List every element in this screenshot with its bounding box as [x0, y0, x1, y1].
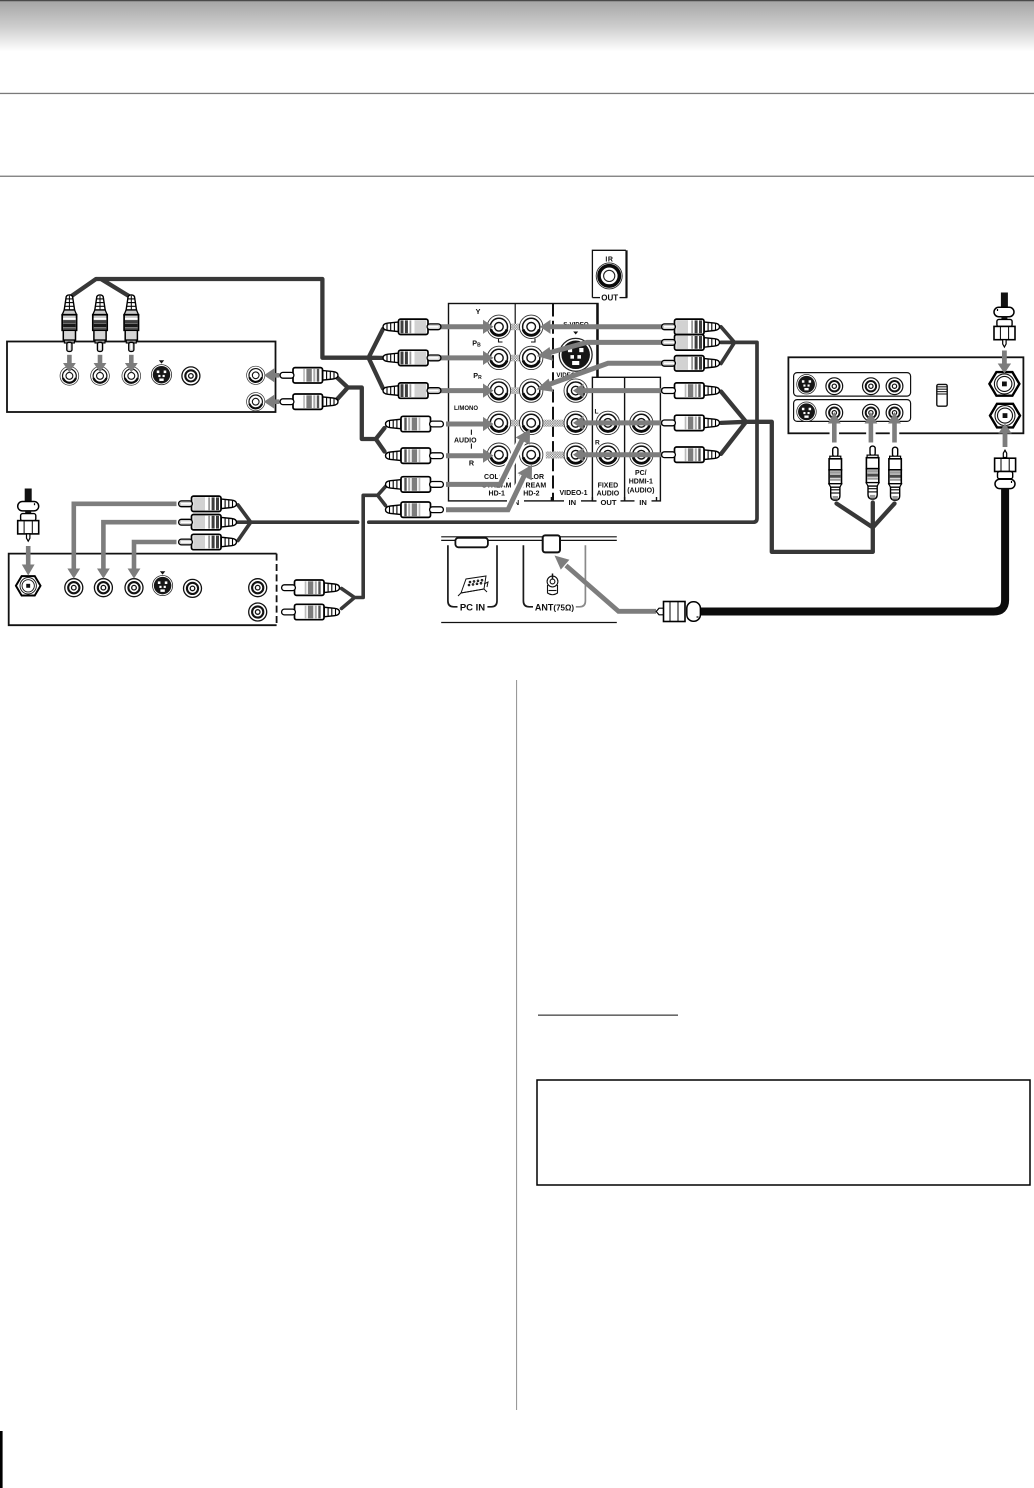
panel: cable box back (right) [788, 357, 1023, 433]
jack cable-box row1 video [826, 378, 843, 395]
jack TV HD-1 L/MONO [487, 411, 510, 434]
arrow into VCR2 F-jack (from coax above) [26, 546, 31, 566]
jack cable-box row2 video [826, 404, 843, 421]
svg-text:HDMI-1: HDMI-1 [629, 479, 653, 486]
bar+arrow into TV HD-2 Y (from cable box bundle) [549, 324, 662, 329]
plug RCA grey to TV HD-1 Pb [383, 350, 441, 365]
note box [537, 1080, 1030, 1185]
plug RCA up into cable-box row2 video [829, 447, 842, 500]
jack VCR2 video 1 [65, 579, 83, 597]
F-jack VCR2 antenna [16, 576, 41, 595]
plug RCA white to TV HD-1 L/MONO [386, 416, 444, 431]
icon: PC (D-sub) inside PC IN bracket [458, 576, 488, 596]
header rule 1 [0, 93, 1034, 94]
arrow into cable-box row2 video [830, 424, 840, 444]
plug RCA grey out of VCR2 video3 [179, 534, 237, 549]
jack TV VIDEO-1 R [564, 443, 587, 466]
svg-text:ANT(75Ω): ANT(75Ω) [535, 603, 574, 613]
jack VCR1 audio out R [247, 393, 265, 411]
jack TV HD-1 Pb [487, 346, 510, 369]
jack TV FIXED R [596, 443, 619, 466]
arrow into VCR1 audio L [273, 373, 280, 378]
plug RCA grey from cable-box to HD-2 Pr [662, 356, 720, 371]
plug RCA white into VCR1 audio R [280, 394, 338, 409]
bar+arrow into TV VIDEO-1 [582, 388, 662, 393]
jack VCR2 aux [184, 579, 202, 597]
jack cable-box row2 R [886, 404, 903, 421]
svg-text:HD-2: HD-2 [523, 490, 539, 497]
jack TV VIDEO-1 L [564, 411, 587, 434]
plug RCA up into cable-box row2 R [889, 447, 902, 500]
jack VCR1 audio out L [247, 366, 265, 384]
footnote rule [538, 1015, 678, 1016]
panel: VCR-2 back (bottom left) [9, 554, 277, 626]
jack VCR1 aux [182, 367, 200, 385]
plug RCA grey out of VCR2 video1 [179, 496, 237, 511]
connector TV S-VIDEO [559, 338, 592, 371]
connector cable-box S-video out (row2) [797, 402, 817, 422]
svg-text:HD-1: HD-1 [489, 490, 505, 497]
bottom-left registration bar [0, 1431, 3, 1488]
jack TV HD-2 R [520, 443, 543, 466]
svg-text:IN: IN [639, 498, 647, 507]
plug RCA white to TV HD-1 R [386, 448, 444, 463]
plug RCA white into VCR2 audio R [282, 604, 340, 619]
jack cable-box row2 L [863, 404, 880, 421]
connector VCR1 S-video [151, 365, 171, 385]
jack VCR1 video-Pb [91, 367, 110, 386]
wire C: VCR2 video plugs to HD-2 Y/Pb/Pr plugs [238, 327, 757, 541]
coax plug into VCR2 F-jack (from top) [18, 489, 39, 542]
antenna coax cable (thick) [700, 488, 1005, 612]
bracket marks under Y jacks [499, 339, 503, 343]
hatch bridge L row (HD1-HD2) [508, 420, 522, 427]
hatch bridge Pr row [508, 387, 522, 394]
jack TV HD-2 L/MONO [520, 411, 543, 434]
arrow into TV HD-1 Pr [441, 388, 485, 393]
svg-text:AUDIO: AUDIO [454, 437, 477, 444]
bottom bracket IN (VIDEO-1) [564, 497, 581, 507]
panel: TV terminal board (center) [449, 304, 599, 501]
hatch bridge Pb row [508, 355, 522, 362]
plug RCA white to TV VIDEO-1 R [662, 447, 720, 462]
svg-text:IR: IR [605, 257, 613, 264]
bar+arrow into TV HD-2 Pr (diagonal from right) [546, 363, 662, 385]
svg-text:OUT: OUT [600, 498, 616, 507]
cable+arrow into ANT(75) terminal [566, 566, 656, 612]
jack VCR1 video-Pr [122, 367, 141, 386]
arrow into cable-box row2 L [866, 424, 876, 444]
connector VCR2 S-video [153, 576, 173, 596]
bottom bracket IN (PC/HDMI) [635, 497, 652, 507]
arrow into TV HD-1 Y [441, 324, 485, 329]
svg-text:FIXED: FIXED [598, 483, 619, 490]
svg-text:R: R [469, 459, 475, 468]
header top dark hairline [0, 0, 1034, 1]
jack cable-box row1 L [863, 378, 880, 395]
plug RCA grey to TV HD-1 Pr [383, 383, 441, 398]
plug RCA white into VCR1 audio L [280, 368, 338, 383]
jack VCR2 video 2 [94, 579, 112, 597]
icon: antenna socket inside ANT bracket [547, 574, 558, 595]
plug RCA white to TV VIDEO-1 [662, 383, 720, 398]
plug RCA white to TV VIDEO-1 L [662, 415, 720, 430]
plug RCA component into VCR1 jack3 [124, 295, 138, 352]
arrow into VCR1 jack 2 [98, 355, 103, 365]
hatch bridge L row (HD2-VIDEO1) [543, 420, 565, 427]
F-connector cable-box RF out (top) [989, 372, 1019, 396]
jack TV PC/HDMI R [630, 443, 653, 466]
plug RCA component into VCR1 jack2 [93, 295, 107, 352]
jack VCR2 video 3 [125, 579, 143, 597]
bottom bracket OUT [597, 497, 621, 507]
coax plug into cable-box RF top [994, 293, 1015, 348]
coax plug on antenna cable end (pointing left) [656, 602, 700, 622]
coax plug into cable-box RF bottom (from antenna cable) [995, 450, 1016, 488]
panel: TV audio sub-panel (FIXED AUDIO / PC-HDMI) [592, 377, 660, 501]
plug RCA white into VCR2 audio L [282, 580, 340, 595]
column divider [516, 680, 517, 1410]
wire A: VCR1 component bundle to HD-1 Y/Pb/Pr plugs [69, 279, 383, 389]
hatch bridge R row (HD2-VIDEO1) [546, 452, 565, 459]
arrow into VCR1 jack 3 [129, 355, 134, 365]
arrow into TV HD-1 R [446, 453, 484, 458]
cable+arrow into VCR2 jack1 [74, 504, 177, 570]
arrow into cable-box row2 R [890, 424, 900, 444]
jack TV HD-2 Pb [520, 346, 543, 369]
svg-text:(AUDIO): (AUDIO) [627, 487, 654, 494]
plug RCA component into VCR1 jack1 [61, 294, 78, 352]
arrow into TV HD-1 L/MONO [446, 422, 484, 427]
svg-text:PC IN: PC IN [460, 603, 485, 614]
arrow into VCR1 jack 1 [67, 355, 72, 365]
jack TV PC/HDMI L [630, 411, 653, 434]
svg-text:IN: IN [569, 498, 577, 507]
svg-text:L: L [595, 408, 599, 415]
jack VCR2 audio out R [249, 603, 267, 621]
arrow into TV HD-1 Pb [441, 355, 485, 360]
svg-text:OUT: OUT [601, 294, 618, 303]
bar+arrow into TV HD-2 Pb (diagonal from right) [547, 342, 663, 353]
bar+arrow into TV VIDEO-1 L [582, 420, 662, 425]
plug RCA grey from cable-box to HD-2 Y [662, 319, 720, 334]
jack TV FIXED L [596, 411, 619, 434]
F-connector cable-box RF in (bottom) [990, 404, 1020, 428]
cable+arrow into VCR2 jack3 [134, 542, 177, 570]
jack TV HD-1 Y [487, 315, 510, 338]
panel: IR OUT box [592, 250, 627, 302]
switch on cable box [937, 384, 947, 406]
cable+arrow into VCR2 jack2 [103, 522, 176, 570]
AUDIO bracket dashes [470, 430, 472, 435]
header gradient band [0, 1, 1034, 51]
panel: VCR-1 back (top left) [7, 342, 276, 413]
wire D: VIDEO-1 plugs to cable-box row2 plugs [721, 392, 895, 552]
plug RCA grey out of VCR2 video2 [179, 515, 237, 530]
jack TV HD-2 Pr [520, 379, 543, 402]
jack TV VIDEO-1 [564, 379, 587, 402]
connector cable-box S-video out (row1) [797, 375, 817, 395]
arrow up into cable-box RF bottom [1003, 432, 1008, 447]
jack VCR2 audio out L [249, 579, 267, 597]
jack cable-box row1 R [886, 378, 903, 395]
marker triangle above VCR2 S-video [160, 571, 165, 574]
bar+arrow into TV VIDEO-1 R [582, 452, 662, 457]
arrow into cable-box RF top [1002, 351, 1007, 366]
wire B1: VCR1 audio out to HD-1 L/R plugs [336, 377, 385, 452]
wire B2: HD-2 audio plugs to VCR2 audio out plugs [342, 487, 386, 609]
jack VCR1 video-Y [60, 367, 79, 386]
svg-text:Y: Y [476, 307, 481, 316]
cable+arrow into TV HD-2 L/MONO (diagonal) [500, 437, 523, 484]
plug RCA white to TV HD-2 R [386, 502, 444, 517]
plug RCA up into cable-box row2 L [866, 446, 879, 499]
svg-text:PC/: PC/ [635, 470, 647, 477]
marker triangle above VCR1 S-video [159, 360, 164, 363]
arrow into VCR1 audio R [273, 399, 280, 404]
svg-text:R: R [595, 440, 600, 447]
jack TV HD-1 Pr [487, 379, 510, 402]
header rule 2 [0, 176, 1034, 177]
plug RCA white to TV HD-2 L/MONO [386, 477, 444, 492]
panel: TV bottom edge with PC IN / ANT [441, 535, 617, 622]
bottom bracket IN (HD) [507, 497, 524, 507]
svg-text:VIDEO-1: VIDEO-1 [559, 490, 587, 497]
jack TV HD-2 Y [520, 315, 543, 338]
hatch bridge Y row [508, 324, 522, 331]
jack TV HD-1 R [487, 443, 510, 466]
plug RCA grey from cable-box to HD-2 Pb [662, 335, 720, 350]
svg-text:AUDIO: AUDIO [597, 490, 620, 497]
cable+arrow into TV HD-2 R (diagonal) [508, 473, 526, 510]
plug RCA grey to TV HD-1 Y [383, 319, 441, 334]
marker triangle above TV S-video [573, 332, 578, 335]
svg-text:L/MONO: L/MONO [454, 406, 478, 412]
